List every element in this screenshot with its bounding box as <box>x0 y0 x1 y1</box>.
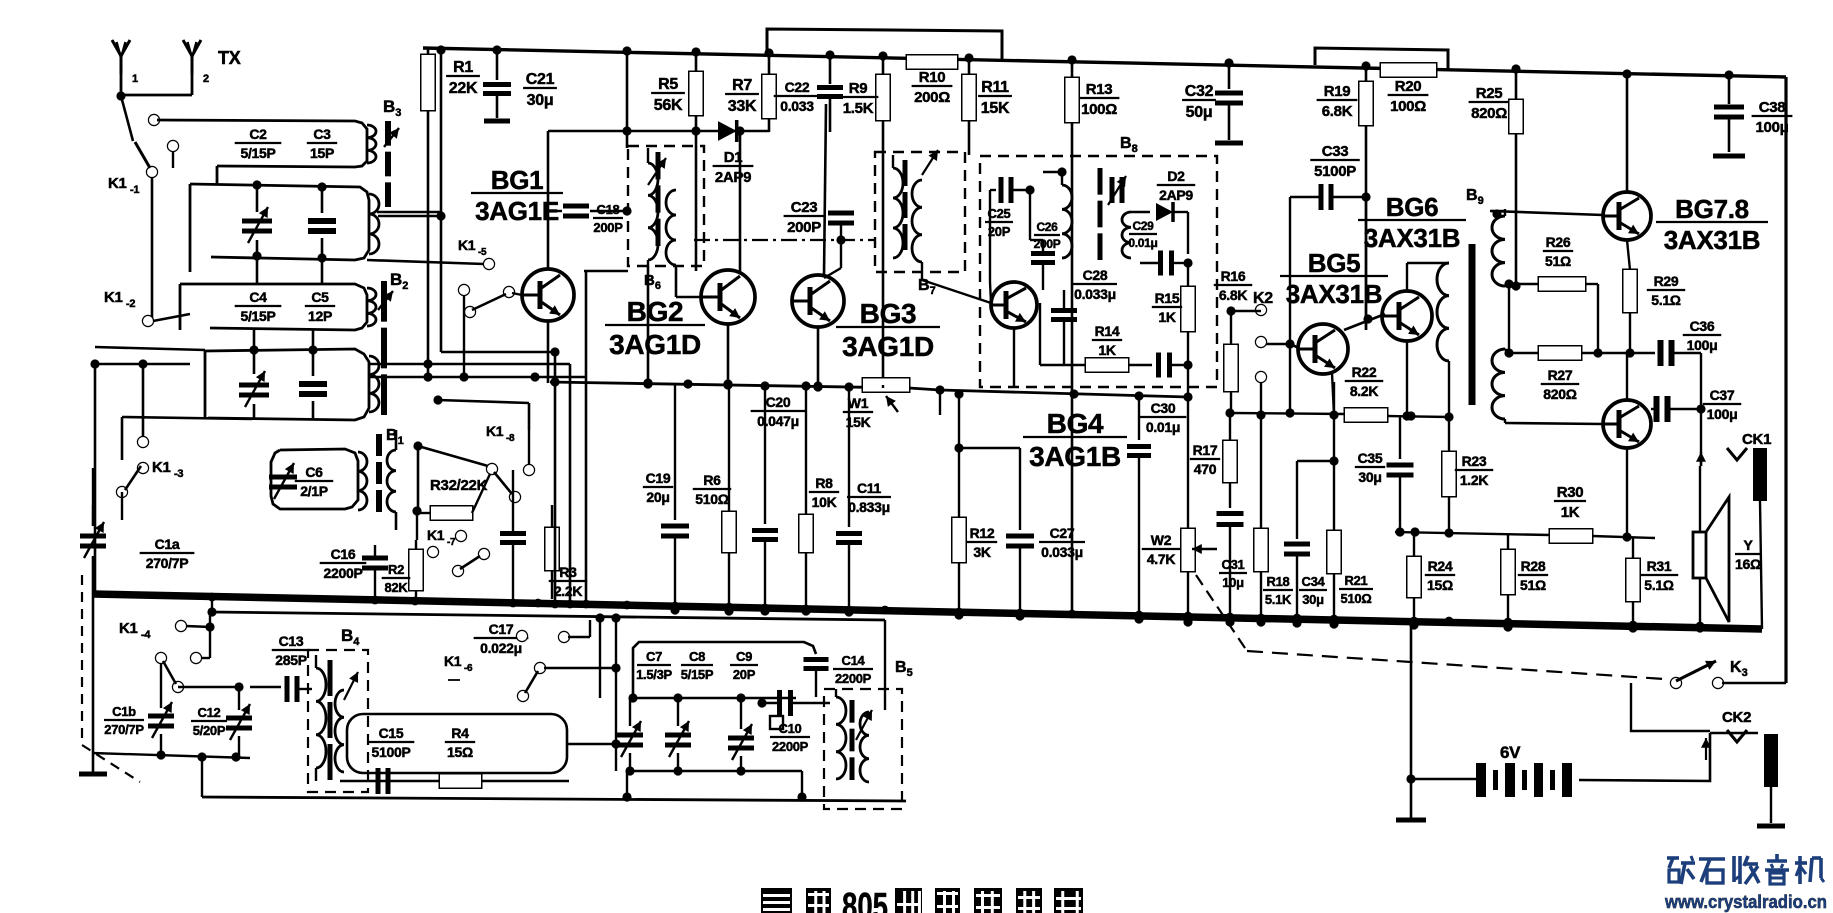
coil B5 secondary <box>860 712 869 782</box>
switch K1-5b <box>459 285 522 317</box>
svg-text:R32/22K: R32/22K <box>430 477 488 494</box>
resistor R20 <box>1381 64 1436 116</box>
label B5 <box>895 659 913 679</box>
coil B7 primary <box>893 155 903 258</box>
capacitor row2b <box>308 182 336 262</box>
wire weave y377 <box>95 347 586 382</box>
wire main bus <box>93 594 1762 629</box>
svg-text:C29: C29 <box>1132 219 1154 233</box>
svg-text:5.1K: 5.1K <box>1265 592 1292 607</box>
wire BG5 emitter <box>1332 373 1334 415</box>
svg-text:C31: C31 <box>1222 557 1245 572</box>
svg-text:R8: R8 <box>815 475 833 491</box>
wire left ground drop <box>92 594 95 772</box>
wire R26 down <box>1593 284 1602 358</box>
svg-text:K1: K1 <box>104 289 123 306</box>
svg-text:R23: R23 <box>1462 453 1487 469</box>
svg-text:K1: K1 <box>152 459 171 476</box>
wire antenna join <box>116 91 192 100</box>
svg-text:R4: R4 <box>451 725 469 741</box>
svg-text:R21: R21 <box>1345 573 1368 588</box>
wire row links b <box>254 330 313 351</box>
label K1-7 <box>427 527 466 548</box>
svg-text:BG4: BG4 <box>1047 408 1104 439</box>
svg-text:1: 1 <box>132 73 138 85</box>
wire weave y212 <box>377 211 441 214</box>
resistor b4 bottom <box>440 775 481 788</box>
transformer B8 box <box>980 156 1217 387</box>
svg-text:R14: R14 <box>1095 323 1120 339</box>
resistor R22 <box>1345 364 1387 422</box>
switch K2 <box>1226 305 1299 382</box>
svg-text:820Ω: 820Ω <box>1543 386 1576 402</box>
label C17 <box>474 621 529 656</box>
transistor BG2 <box>701 270 755 324</box>
resistor R5 <box>651 47 702 271</box>
svg-text:2/1P: 2/1P <box>300 483 328 499</box>
svg-text:-8: -8 <box>506 433 515 444</box>
label 6V <box>1500 743 1521 762</box>
wire detector <box>1131 211 1150 213</box>
svg-text:R26: R26 <box>1546 234 1571 250</box>
svg-text:K1: K1 <box>427 527 445 543</box>
svg-text:Y: Y <box>1743 537 1753 553</box>
wire BG5 collector up <box>1365 197 1367 330</box>
label BG2 <box>605 296 705 360</box>
ground left <box>79 772 107 777</box>
watermark url <box>1664 892 1827 912</box>
capacitor C18 <box>548 206 632 216</box>
svg-text:50μ: 50μ <box>1186 104 1213 121</box>
svg-text:C13: C13 <box>279 633 304 649</box>
label C33 <box>1310 143 1360 180</box>
wiper arrow W2 <box>1192 544 1217 554</box>
coil box row4 <box>205 349 379 420</box>
svg-text:15Ω: 15Ω <box>447 744 473 760</box>
svg-text:R13: R13 <box>1086 81 1113 98</box>
trimmer arrow B6 <box>648 158 666 185</box>
capacitor C10 <box>757 690 830 729</box>
label K1-3 <box>152 459 183 480</box>
wire BG1 feed <box>622 46 631 148</box>
svg-text:R17: R17 <box>1193 442 1218 458</box>
watermark logo <box>1667 854 1824 884</box>
wire R12-C27 link <box>954 443 1020 452</box>
wire BG2 emitter <box>723 324 732 389</box>
label D1 <box>713 149 754 186</box>
transformer B6 box <box>628 146 704 266</box>
svg-text:0.01μ: 0.01μ <box>1146 419 1180 435</box>
capacitor C22 <box>774 50 843 132</box>
wire BG1 collector <box>547 131 550 269</box>
wire B6 to BG2 base <box>676 265 701 297</box>
label C13 <box>272 633 310 668</box>
switch K1-8 <box>487 430 534 502</box>
svg-text:2AP9: 2AP9 <box>1159 187 1193 203</box>
wire K3 out <box>1722 682 1786 684</box>
dash-dot line AGC <box>694 235 876 244</box>
resistor R7 <box>725 48 775 132</box>
svg-text:BG3: BG3 <box>860 298 917 329</box>
battery 6V <box>1476 763 1572 797</box>
svg-text:3AX31B: 3AX31B <box>1364 223 1460 253</box>
speaker Y <box>1693 497 1729 622</box>
svg-text:C8: C8 <box>689 649 705 664</box>
label B8 <box>1120 135 1138 155</box>
svg-text:BG1: BG1 <box>491 165 544 195</box>
svg-text:5/15P: 5/15P <box>681 667 714 682</box>
label C37 <box>1703 387 1741 422</box>
svg-text:12P: 12P <box>308 308 332 324</box>
coil box row5 C6 <box>271 449 367 510</box>
wire c13 row <box>250 686 281 688</box>
capacitor C16 <box>320 545 388 598</box>
diode D2 <box>1156 202 1173 222</box>
svg-text:4.7K: 4.7K <box>1147 551 1176 567</box>
label C5 <box>305 289 335 324</box>
svg-text:0.022μ: 0.022μ <box>480 640 522 656</box>
wire row links a <box>257 258 322 284</box>
capacitor C30 <box>1127 396 1186 624</box>
svg-text:C21: C21 <box>526 71 555 88</box>
variable capacitor C6 <box>269 463 297 499</box>
coil box row1 B3 primary <box>157 120 376 184</box>
label K1-4 <box>119 620 151 641</box>
resistor R13 <box>1066 55 1120 617</box>
resistor R32 <box>417 474 490 520</box>
svg-text:3AX31B: 3AX31B <box>1286 279 1382 309</box>
bus junction dots <box>208 593 1705 631</box>
capacitor C11 <box>836 387 891 617</box>
wire weave x586 <box>584 271 628 602</box>
ground CK2 <box>1757 824 1785 829</box>
resistor R2 <box>382 506 423 599</box>
svg-text:C1a: C1a <box>155 536 180 552</box>
wire K1-4 out <box>178 682 244 691</box>
wire D2 out <box>1173 212 1188 254</box>
svg-text:3AG1E: 3AG1E <box>475 196 559 226</box>
trimmer arrow B4 <box>344 672 358 700</box>
label K1-6 <box>444 653 473 680</box>
wire row4 bottom link <box>122 417 252 460</box>
svg-text:C10: C10 <box>779 721 802 736</box>
svg-text:C1b: C1b <box>112 704 136 719</box>
switch K1-2 <box>143 314 190 326</box>
wire BG2 collector <box>739 132 742 272</box>
svg-text:R19: R19 <box>1324 83 1351 100</box>
label BG3 <box>836 298 940 362</box>
wire BG6 emitter <box>1406 341 1408 416</box>
box C15 R4 <box>347 714 567 773</box>
wire battery right <box>1579 733 1710 781</box>
svg-text:C33: C33 <box>1322 143 1349 160</box>
capacitor C32 <box>1182 58 1243 143</box>
wire k15b down <box>459 295 468 382</box>
svg-text:51Ω: 51Ω <box>1520 577 1546 593</box>
wire to K1-5 <box>367 260 484 264</box>
svg-text:C6: C6 <box>305 464 323 480</box>
coil B7 secondary <box>912 180 922 262</box>
svg-text:R11: R11 <box>981 79 1009 96</box>
svg-text:C15: C15 <box>379 725 404 741</box>
svg-text:30μ: 30μ <box>1302 592 1324 607</box>
resistor R6 <box>693 384 736 616</box>
svg-text:1K: 1K <box>1158 309 1175 325</box>
svg-text:C18: C18 <box>597 202 620 217</box>
svg-text:C37: C37 <box>1710 387 1735 403</box>
resistor R26 <box>1516 234 1598 291</box>
resistor R15 <box>1152 263 1195 397</box>
svg-text:C36: C36 <box>1690 318 1715 334</box>
resistor R23 <box>1443 417 1494 532</box>
svg-text:C14: C14 <box>842 653 866 668</box>
wire k16 link <box>544 663 621 672</box>
svg-text:82K: 82K <box>385 580 409 595</box>
svg-text:R28: R28 <box>1521 558 1546 574</box>
capacitor row4b <box>299 345 327 418</box>
antenna 1 <box>112 40 138 96</box>
wire output line <box>1395 527 1655 538</box>
svg-text:R9: R9 <box>849 80 868 97</box>
capacitor b4 bottom <box>378 768 388 794</box>
label C25 <box>985 206 1013 239</box>
svg-text:R29: R29 <box>1654 273 1679 289</box>
wire R27 left <box>1504 279 1513 353</box>
svg-text:5/15P: 5/15P <box>240 145 275 161</box>
switch K1-4 <box>156 612 215 692</box>
resistor R16 <box>1214 268 1252 413</box>
svg-text:15K: 15K <box>981 100 1010 117</box>
svg-text:8.2K: 8.2K <box>1350 383 1379 399</box>
svg-text:R7: R7 <box>732 77 752 94</box>
label C3 <box>307 126 337 161</box>
label K1-8 <box>486 423 515 444</box>
wire R14 left <box>1039 303 1041 365</box>
capacitor C28 <box>1051 290 1077 365</box>
svg-text:C26: C26 <box>1036 220 1058 234</box>
label BG7.8 <box>1656 194 1768 255</box>
wire row2 left edge <box>189 184 192 272</box>
wire CK1 down <box>1760 501 1762 629</box>
svg-text:0.01μ: 0.01μ <box>1128 236 1157 250</box>
svg-text:R2: R2 <box>388 562 404 577</box>
svg-text:R22: R22 <box>1352 364 1377 380</box>
svg-text:C20: C20 <box>766 394 791 410</box>
svg-text:100μ: 100μ <box>1687 337 1718 353</box>
transistor BG8 <box>1603 400 1651 448</box>
svg-text:20P: 20P <box>733 667 756 682</box>
transformer B2 core <box>378 281 393 415</box>
label C15 <box>368 725 415 760</box>
wire k13 to c1a <box>93 468 122 520</box>
wire CK2 top <box>1701 733 1758 760</box>
svg-text:3AG1B: 3AG1B <box>1029 441 1121 472</box>
svg-text:C23: C23 <box>791 199 818 216</box>
svg-text:C11: C11 <box>857 480 882 496</box>
label C7 <box>636 649 672 682</box>
svg-text:-7: -7 <box>447 537 456 548</box>
svg-text:1.5K: 1.5K <box>843 100 874 117</box>
label C6 <box>295 464 333 499</box>
wire rail2 drop <box>211 598 213 612</box>
wire K2 down <box>1256 382 1265 529</box>
svg-text:820Ω: 820Ω <box>1471 105 1507 122</box>
wire B9 mid link <box>0 0 1 1</box>
coil box row2 <box>190 184 379 260</box>
wire B8 interior links <box>990 167 1067 303</box>
dashed gang link left <box>82 575 140 782</box>
coil B8 right <box>1122 212 1131 258</box>
svg-text:510Ω: 510Ω <box>1341 591 1372 606</box>
resistor R8 <box>800 386 840 616</box>
wire C36 out <box>1672 353 1706 466</box>
dashed volume link <box>1196 575 1664 679</box>
svg-text:K1: K1 <box>486 423 504 439</box>
svg-text:C38: C38 <box>1759 99 1786 116</box>
svg-text:-1: -1 <box>130 184 139 196</box>
svg-text:200P: 200P <box>787 219 821 236</box>
wire BG7 collector <box>1622 69 1631 192</box>
label C4 <box>235 289 282 324</box>
label R32 <box>430 477 488 494</box>
svg-text:2200P: 2200P <box>835 671 872 686</box>
svg-text:BG2: BG2 <box>627 296 684 327</box>
label CK2 <box>1722 709 1751 726</box>
label C26 <box>1034 220 1061 251</box>
capacitor C35 <box>1355 417 1414 532</box>
svg-text:20μ: 20μ <box>646 489 669 505</box>
svg-text:C27: C27 <box>1050 525 1075 541</box>
wire b4 bottom row <box>340 780 569 782</box>
label C28 <box>1073 267 1117 302</box>
wire BG1 emitter <box>547 321 550 383</box>
svg-text:-3: -3 <box>174 468 183 480</box>
coil B6 primary <box>648 148 658 266</box>
label C8 <box>681 649 714 682</box>
label B9 <box>1466 187 1484 207</box>
svg-text:5100P: 5100P <box>372 744 411 760</box>
wire BG4 emitter <box>1013 328 1015 387</box>
svg-text:D2: D2 <box>1167 168 1185 184</box>
label D2 <box>1157 168 1195 203</box>
label BG1 <box>471 165 563 226</box>
label C20 <box>751 394 806 429</box>
wire mid bus A <box>550 377 909 392</box>
label C12 <box>191 705 227 738</box>
transformer B6 core <box>656 152 661 246</box>
capacitor trimmer B8 <box>1108 176 1126 205</box>
capacitor C37 <box>1651 396 1701 422</box>
svg-text:R30: R30 <box>1557 484 1584 501</box>
svg-text:R16: R16 <box>1221 268 1246 284</box>
resistor R25 <box>1469 64 1523 286</box>
wire b5 vert <box>884 620 886 710</box>
svg-text:15P: 15P <box>310 145 334 161</box>
wire weave x555 <box>554 352 557 600</box>
svg-text:20P: 20P <box>988 224 1011 239</box>
svg-text:100Ω: 100Ω <box>1390 98 1426 115</box>
svg-text:R18: R18 <box>1267 574 1290 589</box>
label C1a <box>140 536 195 571</box>
svg-text:805: 805 <box>842 886 888 913</box>
box C7 group top <box>633 642 816 698</box>
label C10 <box>770 721 810 754</box>
label C36 <box>1683 318 1721 353</box>
trimmer arrow B7 <box>922 150 938 175</box>
svg-text:3AG1D: 3AG1D <box>609 329 701 360</box>
capacitor C34 <box>1284 461 1327 628</box>
coil box row3 B2 primary <box>180 284 376 330</box>
svg-text:C3: C3 <box>313 126 331 142</box>
capacitor C27 <box>1006 448 1085 621</box>
svg-text:-6: -6 <box>464 663 473 674</box>
resistor R10 <box>907 56 957 107</box>
svg-text:W1: W1 <box>848 395 869 411</box>
resistor R14 <box>1040 323 1152 372</box>
wire weave x441 <box>440 216 443 352</box>
svg-text:C9: C9 <box>736 649 752 664</box>
coil driver primary <box>1437 263 1449 417</box>
coil B6 secondary <box>666 190 676 265</box>
transformer B1 core <box>376 434 382 512</box>
switch K3 <box>1671 661 1723 688</box>
resistor R21 <box>1328 382 1374 629</box>
resistor R9 <box>838 51 890 385</box>
trimmer arrow B5 <box>856 710 872 740</box>
wire battery left <box>1411 778 1476 781</box>
transformer B5 box <box>824 689 902 809</box>
svg-text:510Ω: 510Ω <box>695 491 728 507</box>
svg-text:1K: 1K <box>1561 504 1580 521</box>
wire speaker bottom <box>1695 578 1704 633</box>
svg-text:1.2K: 1.2K <box>1460 472 1489 488</box>
svg-text:W2: W2 <box>1151 532 1172 548</box>
variable capacitor C9v <box>728 698 754 771</box>
label C29 <box>1128 219 1157 250</box>
capacitor C19 <box>643 383 689 615</box>
svg-text:2.2K: 2.2K <box>554 583 583 599</box>
wire R20 bypass loop <box>1315 48 1448 70</box>
svg-text:TX: TX <box>218 48 241 68</box>
transistor BG7 <box>1603 192 1651 240</box>
capacitor C20c <box>752 386 778 616</box>
wire x600 drop <box>595 613 604 698</box>
wire c15 out <box>567 739 621 748</box>
capacitor det2 <box>1159 353 1193 378</box>
resistor R28 <box>1502 534 1549 632</box>
svg-text:R3: R3 <box>559 564 577 580</box>
wire CK2 down <box>1770 787 1772 823</box>
wire weave y364 <box>90 359 570 368</box>
transistor BG1 <box>522 269 574 321</box>
wire B7 to BG4 base <box>922 262 991 303</box>
svg-text:CK1: CK1 <box>1742 431 1771 448</box>
svg-text:BG5: BG5 <box>1308 248 1361 278</box>
transformer driver core <box>1469 244 1476 405</box>
wire diode line <box>548 126 769 135</box>
resistor R30 <box>1550 484 1592 543</box>
svg-text:R6: R6 <box>703 472 721 488</box>
svg-text:-5: -5 <box>478 247 487 258</box>
wire BG6 collector <box>1407 263 1449 291</box>
switch K1-7 <box>428 547 489 576</box>
label BG5 <box>1280 248 1388 309</box>
label Y <box>1735 537 1761 572</box>
wire speaker top <box>1696 452 1706 532</box>
label B7 <box>918 277 936 297</box>
resistor R29 <box>1624 270 1686 358</box>
svg-text:5.1Ω: 5.1Ω <box>1651 292 1681 308</box>
